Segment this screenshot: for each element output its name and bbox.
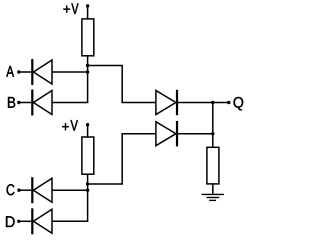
wire output node to Q terminal <box>213 102 229 104</box>
diode D4 triangle <box>33 209 52 233</box>
node C input terminal <box>17 189 20 192</box>
diode D5 triangle <box>156 91 176 115</box>
wire AND2 node to D6 anode <box>88 134 156 184</box>
node AND1 branch junction <box>86 64 89 67</box>
node +V2 terminal <box>86 123 89 126</box>
diode D3 triangle <box>33 178 52 202</box>
wire input A to D1 cathode <box>19 71 31 73</box>
wire D5 cathode to output node <box>177 102 213 104</box>
label A <box>6 66 14 77</box>
resistor R2 <box>82 137 94 174</box>
label B <box>8 97 15 108</box>
node output junction <box>211 101 214 104</box>
node +V1 terminal <box>86 4 89 7</box>
resistor R1 <box>82 19 94 56</box>
node A junction <box>86 70 89 73</box>
wire D6 cathode to output branch <box>177 133 213 135</box>
wire +V1 to R1 <box>87 6 89 19</box>
node D input terminal <box>17 220 20 223</box>
wire D4 anode to AND2 node <box>52 220 88 222</box>
ground <box>202 193 224 195</box>
wire R2 bottom to D row (AND2 node) <box>87 174 89 221</box>
diode D3 cathode bar <box>31 177 33 203</box>
label +V (top supply) <box>63 6 70 13</box>
diode D5 cathode bar <box>176 90 178 115</box>
label +V (bottom supply) <box>62 123 69 130</box>
diode D6 triangle <box>156 122 176 146</box>
node AND2 branch junction <box>86 182 89 185</box>
wire +V2 to R2 <box>87 125 89 137</box>
diode D2 cathode bar <box>31 90 33 116</box>
diode D6 cathode bar <box>176 121 178 146</box>
node D6 output junction <box>211 132 214 135</box>
wire input D to D4 cathode <box>19 220 31 222</box>
wire input C to D3 cathode <box>19 189 31 191</box>
wire AND1 node to D5 anode <box>88 66 156 103</box>
diode D2 triangle <box>33 91 52 115</box>
wire output node down to R3 <box>212 103 214 148</box>
node Q terminal <box>227 101 230 104</box>
wire D2 anode to AND1 node <box>52 102 88 104</box>
node B input terminal <box>17 101 20 104</box>
resistor R3 <box>207 147 219 184</box>
diode D1 triangle <box>33 60 52 84</box>
diode D1 cathode bar <box>31 59 33 85</box>
wire R1 bottom to B row (AND1 node) <box>87 56 89 103</box>
diode D4 cathode bar <box>31 208 33 234</box>
wire D3 anode to AND2 node <box>52 189 88 191</box>
label C <box>7 184 15 195</box>
wire input B to D2 cathode <box>19 102 31 104</box>
label D <box>6 216 15 227</box>
wire D1 anode to AND1 node <box>52 71 88 73</box>
label Q <box>234 97 244 110</box>
wire R3 bottom to ground <box>212 184 214 195</box>
node A input terminal <box>17 70 20 73</box>
node C junction <box>86 189 89 192</box>
